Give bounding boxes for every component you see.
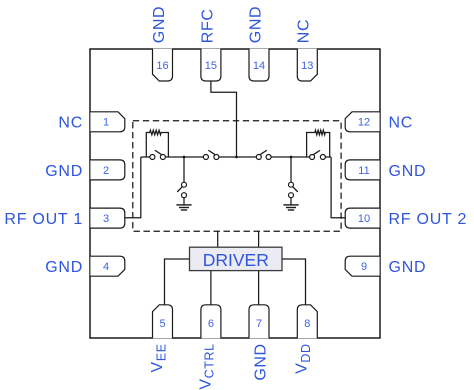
svg-text:GND: GND <box>45 163 83 180</box>
svg-text:7: 7 <box>256 318 262 330</box>
svg-text:RF OUT 1: RF OUT 1 <box>4 211 83 228</box>
svg-text:12: 12 <box>358 117 370 129</box>
svg-text:GND: GND <box>253 343 270 380</box>
svg-text:8: 8 <box>304 318 310 330</box>
svg-text:14: 14 <box>253 60 265 72</box>
svg-text:15: 15 <box>205 60 217 72</box>
svg-text:VEE: VEE <box>149 343 168 372</box>
svg-text:16: 16 <box>156 60 168 72</box>
svg-text:GND: GND <box>151 6 168 43</box>
svg-text:5: 5 <box>159 318 165 330</box>
svg-text:NC: NC <box>389 115 414 132</box>
svg-text:4: 4 <box>103 261 109 273</box>
svg-text:11: 11 <box>358 165 369 177</box>
svg-text:6: 6 <box>208 318 214 330</box>
svg-text:NC: NC <box>58 115 83 132</box>
svg-text:NC: NC <box>296 19 313 43</box>
svg-text:GND: GND <box>45 259 83 276</box>
svg-text:2: 2 <box>103 165 109 177</box>
svg-text:GND: GND <box>247 6 264 43</box>
svg-text:1: 1 <box>103 117 109 129</box>
svg-text:9: 9 <box>361 261 367 273</box>
svg-text:DRIVER: DRIVER <box>203 250 269 270</box>
svg-text:RFC: RFC <box>199 9 216 44</box>
svg-text:10: 10 <box>358 213 370 225</box>
svg-text:VDD: VDD <box>294 343 313 374</box>
svg-text:VCTRL: VCTRL <box>197 343 216 389</box>
svg-text:3: 3 <box>103 213 109 225</box>
svg-text:GND: GND <box>389 163 427 180</box>
svg-text:RF OUT 2: RF OUT 2 <box>389 211 468 228</box>
svg-text:GND: GND <box>389 259 427 276</box>
svg-text:13: 13 <box>301 60 313 72</box>
